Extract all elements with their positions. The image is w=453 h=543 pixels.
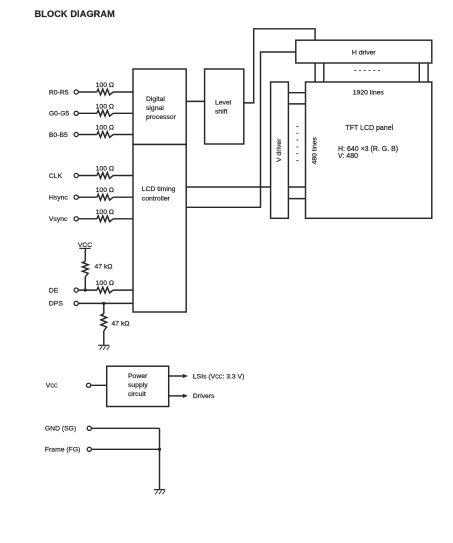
svg-text:R0-R5: R0-R5	[49, 89, 69, 96]
svg-text:Vsync: Vsync	[49, 216, 68, 223]
svg-text:signal: signal	[146, 105, 164, 112]
svg-text:TFT LCD panel: TFT LCD panel	[345, 125, 393, 132]
svg-text:V: 480: V: 480	[338, 153, 358, 160]
svg-text:100 Ω: 100 Ω	[96, 209, 114, 216]
svg-text:100 Ω: 100 Ω	[96, 125, 114, 132]
svg-text:480 lines: 480 lines	[312, 137, 319, 165]
svg-text:100 Ω: 100 Ω	[96, 82, 114, 89]
svg-text:Digital: Digital	[146, 96, 165, 103]
svg-text:100 Ω: 100 Ω	[96, 103, 114, 110]
svg-text:DE: DE	[49, 287, 59, 294]
svg-text:47 kΩ: 47 kΩ	[95, 263, 113, 270]
svg-text:H: 640 ×3 (R. G. B): H: 640 ×3 (R. G. B)	[338, 146, 398, 153]
svg-text:shift: shift	[215, 109, 228, 116]
svg-text:BLOCK DIAGRAM: BLOCK DIAGRAM	[35, 9, 116, 19]
svg-text:Frame (FG): Frame (FG)	[45, 447, 81, 454]
svg-text:CLK: CLK	[49, 173, 63, 180]
svg-text:processor: processor	[146, 114, 177, 121]
svg-text:B0-B5: B0-B5	[49, 132, 68, 139]
svg-text:Power: Power	[128, 373, 148, 380]
svg-text:V driver: V driver	[276, 138, 283, 162]
svg-text:100 Ω: 100 Ω	[96, 187, 114, 194]
svg-text:LSIs (VCC: 3.3 V): LSIs (VCC: 3.3 V)	[193, 373, 244, 380]
svg-text:DPS: DPS	[49, 301, 63, 308]
svg-text:LCD timing: LCD timing	[142, 186, 176, 193]
svg-text:100 Ω: 100 Ω	[96, 166, 114, 173]
svg-text:1920 lines: 1920 lines	[353, 89, 385, 96]
svg-text:Drivers: Drivers	[193, 393, 215, 400]
svg-text:supply: supply	[128, 382, 148, 389]
svg-text:Level: Level	[215, 100, 232, 107]
svg-text:circuit: circuit	[128, 391, 146, 398]
svg-text:G0-G5: G0-G5	[49, 111, 70, 118]
svg-text:Hsync: Hsync	[49, 195, 68, 202]
svg-text:VCC: VCC	[46, 383, 58, 390]
svg-text:controller: controller	[142, 195, 171, 202]
svg-text:100 Ω: 100 Ω	[96, 280, 114, 287]
svg-text:47 kΩ: 47 kΩ	[112, 321, 130, 328]
svg-text:GND (SG): GND (SG)	[45, 426, 76, 433]
svg-text:H driver: H driver	[352, 49, 377, 56]
